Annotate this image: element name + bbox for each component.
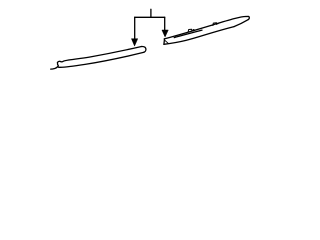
left strip right end cap (142, 46, 146, 52)
right strip left end crease (165, 40, 168, 43)
right leader line (164, 17, 166, 30)
bracket horizontal line (135, 16, 165, 18)
right arrowhead (162, 30, 168, 37)
right strip bottom edge (164, 27, 234, 45)
left strip top edge with end wave (58, 47, 142, 63)
left strip left hook (51, 62, 59, 69)
left arrowhead (131, 39, 137, 46)
bracket center tick (150, 9, 152, 17)
right strip tab 2 (213, 23, 217, 26)
right strip tab 2 notch cap (218, 22, 219, 25)
right strip fold line (174, 30, 202, 37)
right strip end return line (234, 20, 248, 27)
right strip right end cap (246, 16, 249, 19)
right strip left end edge (163, 39, 166, 44)
right strip tab 1 notch cap (193, 29, 194, 32)
left leader line (134, 17, 136, 39)
left strip lower edge (58, 52, 144, 67)
right strip tab 1 (188, 29, 192, 31)
right strip top edge (164, 16, 246, 38)
